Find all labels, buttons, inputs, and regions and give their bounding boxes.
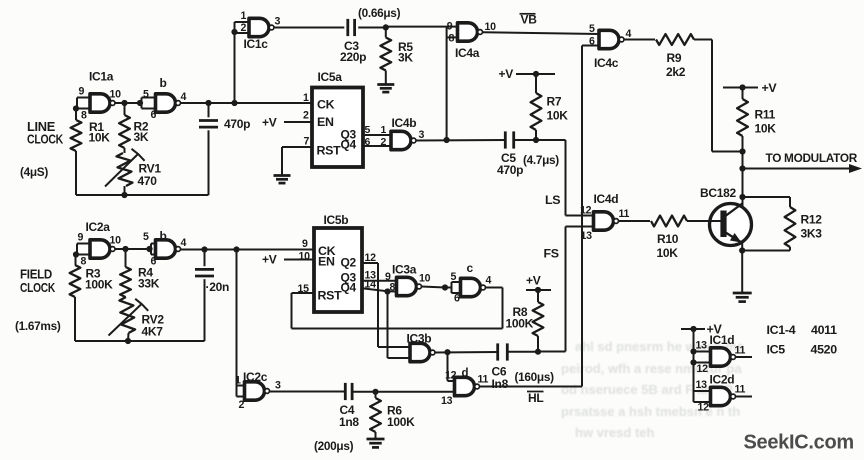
label IC5b pins-left <box>298 238 311 295</box>
wire IC3b out <box>435 351 498 354</box>
svg-text:100K: 100K <box>85 278 113 292</box>
wire Q2 to IC3b <box>362 252 410 347</box>
svg-text:11: 11 <box>478 374 489 386</box>
gate IC4d <box>580 192 630 242</box>
node 20n top <box>201 246 207 252</box>
node IC2c branch <box>233 246 239 252</box>
label 160us <box>515 370 555 384</box>
svg-text:R9: R9 <box>667 51 682 65</box>
rheostat RV1 <box>105 149 161 188</box>
power +V spare gates <box>681 323 722 337</box>
node IC1b input <box>137 100 143 106</box>
node emitter/R12 <box>739 247 745 253</box>
wire R9 to collector node <box>694 40 743 152</box>
svg-text:13: 13 <box>696 340 708 352</box>
IC IC5a box <box>312 70 363 167</box>
svg-text:Q4: Q4 <box>341 138 357 152</box>
svg-text:8: 8 <box>390 282 396 294</box>
gate IC2a <box>76 220 121 268</box>
svg-text:4: 4 <box>626 28 632 40</box>
wire IC4b out <box>416 139 506 142</box>
svg-text:4: 4 <box>181 237 187 249</box>
svg-text:470p: 470p <box>224 117 250 131</box>
gate IC3b <box>407 332 436 362</box>
node 470p top <box>205 100 211 106</box>
wire Q4 to IC3b <box>388 292 411 359</box>
svg-text:6: 6 <box>365 136 371 148</box>
svg-text:IC4a: IC4a <box>455 46 480 60</box>
resistor R3 <box>70 265 114 297</box>
svg-text:10K: 10K <box>755 122 777 136</box>
svg-text:(200μs): (200μs) <box>314 439 354 453</box>
wire IC5b RST loop <box>292 288 503 329</box>
node IC1d pin12 <box>690 359 696 365</box>
svg-text:IC1d: IC1d <box>710 333 735 347</box>
gate IC1d <box>694 333 746 375</box>
resistor R2 <box>119 103 149 153</box>
wire R12 bottom <box>743 250 791 252</box>
svg-text:470: 470 <box>138 174 158 188</box>
wire IC4d out to R10 <box>619 220 650 222</box>
power +V to IC5b EN <box>262 253 314 267</box>
node C4/R6 <box>372 389 378 395</box>
wire to IC3d pin12 <box>448 352 455 381</box>
ground below R5 <box>377 85 394 93</box>
resistor R1 <box>71 120 111 151</box>
gate IC2b (b) <box>143 229 187 268</box>
svg-text:(0.66μs): (0.66μs) <box>358 6 401 20</box>
label FIELD CLOCK <box>20 268 55 296</box>
svg-text:HL: HL <box>528 391 543 405</box>
svg-text:6: 6 <box>589 36 595 48</box>
svg-text:IC5b: IC5b <box>324 213 349 227</box>
gate IC3c (c) <box>445 261 492 305</box>
wire IC3c out to RST loop <box>486 287 503 289</box>
svg-text:(4.7μs): (4.7μs) <box>523 153 559 167</box>
wire <box>75 109 77 196</box>
svg-text:8: 8 <box>81 110 87 122</box>
svg-text:100K: 100K <box>506 317 534 331</box>
gate IC2d <box>694 373 746 414</box>
resistor R11 <box>737 88 776 137</box>
svg-text:·20n: ·20n <box>206 280 229 294</box>
wire LS <box>536 140 594 216</box>
svg-text:9: 9 <box>79 86 85 98</box>
svg-text:13: 13 <box>696 379 708 391</box>
node IC1d pin13 <box>690 348 696 354</box>
resistor R5 <box>380 28 413 85</box>
svg-text:5: 5 <box>143 231 149 243</box>
svg-text:BC182: BC182 <box>700 186 736 200</box>
node IC3d pin12 branch <box>444 349 450 355</box>
svg-text:11: 11 <box>735 345 746 357</box>
ground emitter <box>733 293 752 302</box>
rheostat RV2 <box>109 297 165 339</box>
svg-text:11: 11 <box>735 384 746 396</box>
svg-text:8: 8 <box>449 33 455 45</box>
node IC4b out / IC4a pin8 <box>444 137 450 143</box>
wire C4 to IC3d pin13 <box>352 391 454 393</box>
wire Q4 to IC3a <box>362 279 397 292</box>
node R9/R11 <box>739 148 745 154</box>
svg-text:In8: In8 <box>492 377 509 391</box>
svg-text:9: 9 <box>447 21 453 33</box>
power +V above R7 <box>499 67 556 81</box>
svg-text:4: 4 <box>486 275 492 287</box>
wire emitter down <box>741 243 743 294</box>
svg-text:RST: RST <box>317 144 342 158</box>
label IC table <box>767 323 838 357</box>
svg-text:12: 12 <box>697 363 709 375</box>
gate IC3a <box>385 263 431 296</box>
svg-text:10: 10 <box>110 88 122 100</box>
svg-text:IC5: IC5 <box>767 343 786 357</box>
power +V to IC5a EN <box>262 116 312 130</box>
label 200us <box>314 439 354 453</box>
label LS <box>545 193 560 207</box>
label IC5a pins-left <box>303 92 310 148</box>
svg-text:3K: 3K <box>134 130 149 144</box>
capacitor 20n <box>195 250 229 342</box>
svg-text:R12: R12 <box>801 213 823 227</box>
svg-text:6: 6 <box>151 256 157 268</box>
svg-text:IC3a: IC3a <box>392 263 417 277</box>
resistor R4 <box>120 249 160 297</box>
wire R11 down to collector <box>742 136 744 206</box>
label FS <box>544 247 559 261</box>
wire HL net <box>480 46 582 387</box>
node C3/R5 <box>383 24 389 30</box>
svg-text:1: 1 <box>381 124 387 136</box>
gate IC4c <box>582 23 632 70</box>
label 4.7us <box>523 153 559 167</box>
wire TO MODULATOR <box>743 164 863 173</box>
svg-text:IC2a: IC2a <box>86 220 111 234</box>
svg-text:RST: RST <box>318 289 343 303</box>
svg-text:2: 2 <box>303 110 309 122</box>
svg-text:10: 10 <box>110 235 122 247</box>
svg-text:3: 3 <box>275 380 281 392</box>
wire IC2d out <box>735 396 752 398</box>
capacitor C3 <box>340 19 366 64</box>
wire C5 to R7 node <box>514 139 537 141</box>
svg-text:CK: CK <box>317 98 335 112</box>
svg-text:IC3b: IC3b <box>407 332 432 346</box>
gate IC3d (d) <box>441 368 489 408</box>
wire R10 to base <box>687 220 725 222</box>
svg-text:4011: 4011 <box>811 323 837 337</box>
label 1.67ms <box>15 319 61 333</box>
label BC182 <box>700 186 736 200</box>
gate IC4b <box>391 116 425 150</box>
svg-text:5: 5 <box>451 271 457 283</box>
svg-text:IC4c: IC4c <box>594 56 619 70</box>
svg-text:11: 11 <box>619 208 630 220</box>
svg-text:+V: +V <box>499 67 514 81</box>
svg-text:CLOCK: CLOCK <box>27 133 63 147</box>
svg-text:2: 2 <box>381 136 387 148</box>
gate IC2c <box>235 370 281 411</box>
node R1 top junction <box>73 105 79 111</box>
svg-text:9: 9 <box>78 232 84 244</box>
svg-text:+V: +V <box>526 274 541 288</box>
wire IC2c feed <box>236 250 238 397</box>
node IC1c branch <box>231 100 237 106</box>
svg-text:3K: 3K <box>398 51 413 65</box>
wire IC5a RST <box>282 147 312 176</box>
svg-text:R10: R10 <box>657 232 679 246</box>
node modulator branch <box>739 165 745 171</box>
capacitor C5 <box>497 131 523 177</box>
resistor R10 <box>651 216 687 260</box>
wire IC1a out to IC1b <box>115 102 140 104</box>
svg-text:FS: FS <box>544 247 559 261</box>
svg-text:5: 5 <box>589 23 595 35</box>
resistor R9 <box>656 34 694 79</box>
svg-text:b: b <box>160 76 167 90</box>
svg-text:220p: 220p <box>340 50 366 64</box>
label HL <box>527 391 544 405</box>
node rail RV1 <box>121 186 127 198</box>
svg-text:(160μs): (160μs) <box>515 370 555 384</box>
svg-text:LS: LS <box>545 193 560 207</box>
svg-text:4: 4 <box>181 91 187 103</box>
svg-text:10K: 10K <box>89 131 111 145</box>
svg-text:2: 2 <box>239 399 245 411</box>
svg-text:470p: 470p <box>497 163 523 177</box>
svg-text:4K7: 4K7 <box>142 325 164 339</box>
node R2 top <box>121 100 127 106</box>
label LINE CLOCK <box>27 120 63 147</box>
capacitor C6 <box>492 343 509 391</box>
svg-text:Q2: Q2 <box>341 256 357 270</box>
svg-text:TO MODULATOR: TO MODULATOR <box>766 151 858 165</box>
wire IC5a Q4 to IC4b <box>363 136 391 148</box>
svg-text:33K: 33K <box>138 277 160 291</box>
power +V above R11 <box>723 81 777 95</box>
svg-text:IC2d: IC2d <box>710 373 735 387</box>
wire IC4a pin8 feed <box>446 37 448 140</box>
wire R12 top <box>743 196 791 198</box>
svg-text:+V: +V <box>262 116 277 130</box>
wire IC5a Q3 to IC4b <box>363 124 391 136</box>
svg-text:b: b <box>160 229 167 243</box>
svg-text:Q4: Q4 <box>341 281 357 295</box>
node collector/R12 <box>739 194 745 200</box>
svg-text:2k2: 2k2 <box>666 65 686 79</box>
svg-text:8: 8 <box>81 256 87 268</box>
node C6/R8 <box>535 349 541 355</box>
label VB <box>520 13 538 27</box>
svg-text:IC5a: IC5a <box>318 70 343 84</box>
svg-text:5: 5 <box>365 124 371 136</box>
svg-text:10K: 10K <box>657 246 679 260</box>
svg-text:IC4d: IC4d <box>594 192 619 206</box>
wire IC1b out to IC5a CK <box>181 102 312 104</box>
wire IC2c out to C4 <box>270 391 345 393</box>
svg-text:13: 13 <box>441 395 453 407</box>
resistor R6 <box>370 392 415 439</box>
svg-text:4520: 4520 <box>811 343 838 357</box>
wire Q3 to IC3a <box>362 270 397 282</box>
svg-text:10: 10 <box>299 251 311 263</box>
svg-text:1: 1 <box>241 10 247 22</box>
svg-text:R7: R7 <box>547 95 562 109</box>
svg-text:14: 14 <box>365 279 377 291</box>
svg-text:12: 12 <box>698 402 710 414</box>
wire C3 to IC4a <box>358 26 457 29</box>
svg-text:1: 1 <box>303 92 309 104</box>
resistor R7 <box>531 74 569 140</box>
svg-text:c: c <box>467 261 474 275</box>
svg-text:(1.67ms): (1.67ms) <box>15 319 61 333</box>
svg-text:12: 12 <box>365 252 377 264</box>
label IC5a pin names <box>317 98 357 158</box>
logo SeekIC.com <box>744 432 854 454</box>
label IC5b pin names <box>318 244 357 303</box>
svg-text:5: 5 <box>143 89 149 101</box>
node R4 top <box>122 246 128 252</box>
svg-text:CLOCK: CLOCK <box>20 281 55 295</box>
svg-text:d: d <box>462 368 469 380</box>
wire IC1d out <box>735 356 752 358</box>
svg-text:(4μS): (4μS) <box>20 165 48 179</box>
wire IC1c out to C3 <box>274 27 344 29</box>
svg-text:1n8: 1n8 <box>339 415 359 429</box>
svg-text:6: 6 <box>454 293 460 305</box>
svg-text:EN: EN <box>317 115 334 129</box>
label 0.66us <box>358 6 401 20</box>
svg-text:IC4b: IC4b <box>392 116 417 130</box>
capacitor C4 <box>339 383 359 429</box>
svg-text:2: 2 <box>241 22 247 34</box>
wire IC3a out <box>422 287 446 288</box>
wire VB line IC4a to IC4c <box>483 32 600 34</box>
ground IC5a pin7 <box>274 176 291 184</box>
svg-text:3: 3 <box>275 16 281 28</box>
svg-text:3K3: 3K3 <box>801 227 823 241</box>
node IC2b input <box>146 246 152 252</box>
wire bottom rail field-clock <box>75 340 205 342</box>
resistor R12 <box>785 197 823 251</box>
svg-text:12: 12 <box>445 370 457 382</box>
svg-text:6: 6 <box>151 109 157 121</box>
svg-text:IC1a: IC1a <box>89 70 114 84</box>
label TO MODULATOR <box>766 151 858 165</box>
node rail RV2 <box>125 333 131 344</box>
node Q4 branch <box>384 288 390 294</box>
node R3 top junction <box>73 251 79 257</box>
node IC1c staple <box>231 29 237 35</box>
svg-text:+V: +V <box>262 253 277 267</box>
resistor R8 <box>506 290 544 352</box>
gate IC1b (b) <box>142 76 187 121</box>
gate IC1c <box>235 10 281 51</box>
node IC3c input <box>442 284 448 290</box>
wire IC1c feed <box>234 33 236 104</box>
svg-text:IC1-4: IC1-4 <box>767 323 796 337</box>
capacitor 470p <box>199 103 250 195</box>
svg-text:10: 10 <box>419 273 431 285</box>
svg-text:10K: 10K <box>547 109 569 123</box>
power +V above R8 <box>526 274 551 294</box>
transistor BC182 <box>710 204 752 246</box>
node C5/R7 <box>533 137 539 143</box>
label 4uS <box>20 165 48 179</box>
svg-text:SeekIC.com: SeekIC.com <box>744 432 854 454</box>
wire FS <box>538 227 594 352</box>
wire <box>74 255 77 342</box>
svg-text:9: 9 <box>302 238 308 250</box>
wire spare gates feed <box>693 329 695 391</box>
wire IC4c out to R9 <box>624 39 655 41</box>
svg-text:IC1c: IC1c <box>244 37 269 51</box>
wire IC2b out to IC5b CK <box>181 249 314 251</box>
wire IC2a out to IC2b <box>115 248 149 250</box>
IC IC5b box <box>314 213 362 312</box>
ground below R6 <box>367 439 385 447</box>
svg-text:100K: 100K <box>387 415 415 429</box>
svg-text:10: 10 <box>485 21 497 33</box>
svg-text:3: 3 <box>419 129 425 141</box>
wire bottom rail line-clock <box>76 194 209 196</box>
svg-text:+V: +V <box>762 81 778 95</box>
gate IC1a <box>76 70 121 122</box>
svg-text:7: 7 <box>304 136 310 148</box>
svg-text:R11: R11 <box>755 108 776 122</box>
gate IC4a <box>447 21 496 61</box>
svg-text:FIELD: FIELD <box>20 268 52 282</box>
svg-text:1: 1 <box>235 375 241 387</box>
svg-text:IC2c: IC2c <box>243 370 268 384</box>
svg-text:EN: EN <box>318 255 335 269</box>
wire C6 to R8 node <box>508 351 539 353</box>
